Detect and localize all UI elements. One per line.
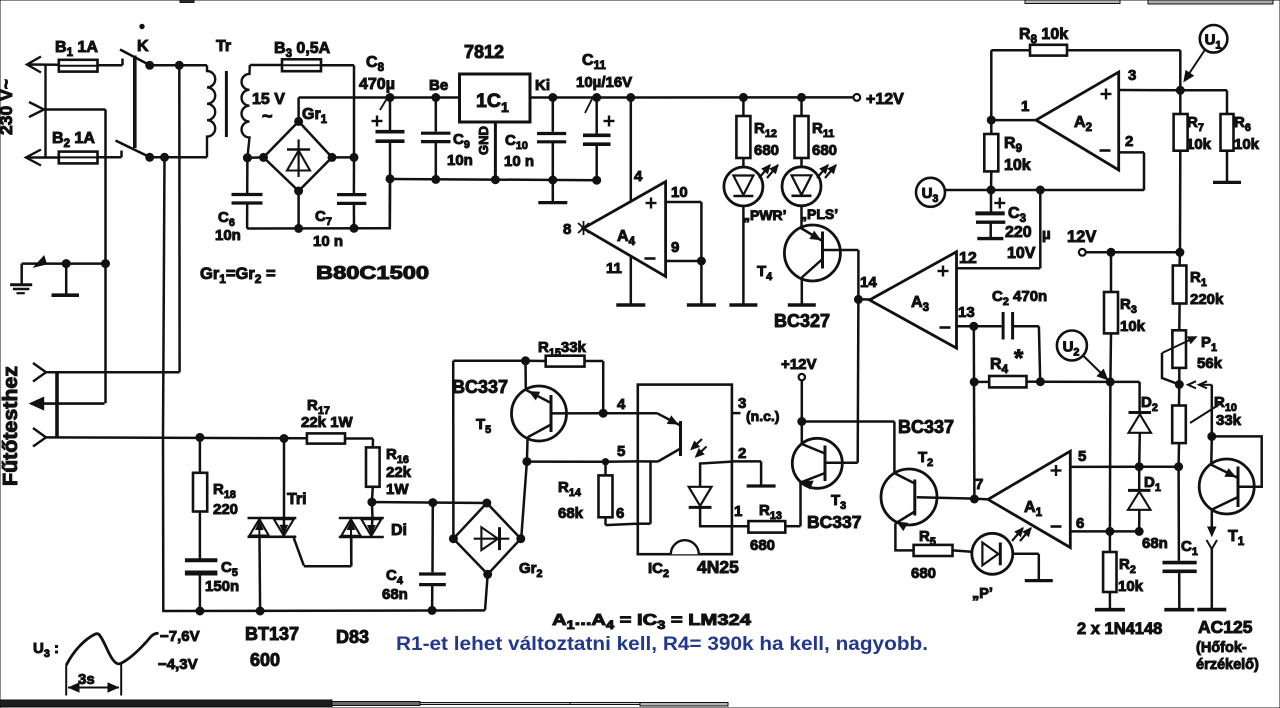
svg-text:2: 2 — [1125, 133, 1133, 150]
svg-text:Tri: Tri — [287, 491, 307, 508]
op-amp A3 — [870, 252, 957, 348]
IC2 LED — [689, 462, 732, 527]
svg-text:6: 6 — [616, 505, 624, 522]
IC2 pin5 wire — [605, 443, 638, 462]
capacitor C5 150n — [185, 559, 239, 611]
capacitor C3 220u — [975, 190, 1050, 263]
svg-text:10: 10 — [671, 184, 688, 201]
svg-text:BC337: BC337 — [452, 377, 508, 397]
node R3 top — [1107, 248, 1115, 256]
bridge rectifier Gr1 — [260, 106, 337, 195]
svg-text:−7,6V: −7,6V — [160, 628, 200, 645]
svg-text:68n: 68n — [1142, 535, 1168, 552]
switch K link bar — [135, 24, 149, 148]
svg-text:68n: 68n — [382, 586, 408, 603]
waveform dimension lines — [66, 664, 121, 696]
svg-text:680: 680 — [754, 142, 779, 159]
LED PWR ground — [729, 206, 757, 305]
terminal +12V — [853, 91, 904, 108]
heater bottom rail dots — [196, 607, 264, 615]
LED PWR — [724, 165, 787, 223]
svg-text:Fűtőtesthez: Fűtőtesthez — [0, 366, 22, 486]
svg-text:13: 13 — [958, 304, 975, 321]
wire U3 line — [945, 186, 1144, 194]
IC1 GND pin — [476, 122, 499, 184]
switch K blade bottom — [116, 141, 151, 158]
potentiometer P1 56k — [1162, 330, 1223, 388]
diode D1 — [1128, 467, 1161, 536]
heavy link terminals — [55, 372, 59, 437]
svg-text:10k: 10k — [1118, 578, 1144, 595]
A4 pin9 input — [666, 239, 706, 265]
svg-text:56k: 56k — [1197, 355, 1223, 372]
wire R3 bottom to pin6 — [1109, 382, 1112, 532]
svg-text:9: 9 — [671, 239, 679, 256]
wire left branch down — [452, 361, 455, 539]
vertical pin13 to node7 — [970, 326, 978, 499]
svg-text:(n.c.): (n.c.) — [746, 408, 779, 424]
node A3 output — [854, 274, 877, 303]
chassis ground bar — [52, 264, 80, 296]
svg-text:érzékelő): érzékelő) — [1196, 657, 1259, 673]
svg-text:12: 12 — [959, 250, 977, 267]
resistor R10 33k — [1172, 381, 1241, 467]
op-amp A1 — [988, 451, 1070, 547]
LED PLS — [782, 165, 838, 222]
svg-text:(Hőfok-: (Hőfok- — [1196, 640, 1247, 656]
svg-text:11: 11 — [606, 260, 622, 277]
svg-text:1: 1 — [1021, 98, 1029, 115]
resistor R11 — [795, 93, 838, 167]
wire pin3 node right — [1180, 89, 1227, 92]
capacitor C4 68n — [382, 503, 446, 615]
svg-text:220k: 220k — [1190, 291, 1224, 308]
svg-text:BC337: BC337 — [807, 512, 861, 532]
earth ground symbol — [10, 264, 32, 294]
IC2 phototransistor — [638, 413, 707, 461]
svg-text:D83: D83 — [336, 627, 369, 647]
wire Gr1 right vertex to B3 line — [332, 153, 358, 161]
A2 pin2 feedback — [1119, 133, 1144, 190]
resistor R3 — [1104, 252, 1146, 382]
svg-text:3s: 3s — [78, 671, 95, 688]
A2 pin1 output — [991, 98, 1036, 120]
wire Gr1 left vertex — [243, 154, 251, 162]
node R10 wiper — [1208, 385, 1216, 441]
svg-text:BC327: BC327 — [774, 311, 830, 331]
capacitor C8 470u — [359, 54, 405, 228]
capacitor C7 — [313, 157, 366, 250]
svg-text:150n: 150n — [205, 578, 239, 595]
capacitor C9 — [421, 94, 473, 184]
transistor T4 BC327 — [757, 206, 858, 331]
capacitor C10 — [504, 94, 566, 185]
wire switch-bottom down to bottom rail — [163, 157, 485, 611]
resistor R16 — [366, 439, 412, 503]
svg-text:AC125: AC125 — [1198, 617, 1253, 637]
transistor T3 BC337 — [792, 422, 861, 533]
svg-text:Gr1​=Gr2​ =: Gr1​=Gr2​ = — [200, 265, 276, 286]
svg-text:4: 4 — [634, 168, 643, 185]
resistor R13 — [732, 502, 801, 554]
svg-text:+12V: +12V — [866, 91, 904, 108]
resistor R8 feedback — [991, 26, 1180, 120]
fuse B1 — [55, 39, 98, 72]
node U2 circle — [1057, 331, 1108, 380]
A2 pin3 input — [1119, 67, 1185, 94]
A1 pin7 node — [970, 476, 988, 503]
svg-text:+12V: +12V — [781, 356, 816, 373]
svg-text:680: 680 — [812, 142, 837, 159]
label -7.6V — [160, 628, 200, 645]
optocoupler IC2 box — [638, 385, 732, 555]
capacitor C2 470n — [974, 288, 1047, 382]
resistor R18 — [193, 433, 238, 558]
LED P ground — [1013, 554, 1053, 581]
wire T5 emitter left — [453, 360, 525, 363]
svg-text:R15​33k: R15​33k — [538, 339, 587, 359]
svg-text:10k: 10k — [1186, 136, 1212, 153]
svg-text:10k: 10k — [1234, 136, 1260, 153]
wire U2 node line — [1040, 378, 1139, 386]
svg-text:*: * — [1014, 345, 1024, 372]
svg-text:B80C1500: B80C1500 — [316, 263, 429, 283]
label -4.3V — [158, 656, 198, 673]
diac Di — [339, 502, 407, 566]
T2 collector wire — [802, 422, 895, 474]
svg-text:Be: Be — [429, 77, 448, 94]
svg-text:BT137: BT137 — [245, 624, 299, 644]
A1 pin6 line — [1070, 515, 1139, 535]
svg-text:„PWRʼ: „PWRʼ — [743, 207, 787, 223]
label LM324 equation — [552, 612, 751, 632]
resistor R6 — [1213, 90, 1260, 182]
node secondary bottom — [243, 154, 264, 162]
wire B3 down to bridge — [321, 65, 354, 157]
resistor R2 — [1095, 531, 1144, 609]
svg-text:8: 8 — [563, 221, 571, 238]
IC2 pin6 wire — [606, 505, 638, 525]
+12V rail right — [530, 96, 853, 99]
wire mains vertical — [44, 65, 46, 158]
node switch bottom — [146, 153, 207, 161]
transformer primary winding — [207, 65, 215, 157]
svg-text:Di: Di — [391, 522, 407, 539]
A4 input loop ground — [687, 202, 716, 305]
node U3 circle — [916, 178, 945, 207]
svg-text:1: 1 — [734, 503, 742, 520]
svg-text:12V: 12V — [1067, 228, 1096, 246]
label 2x1N4148 — [1077, 620, 1162, 638]
svg-text:10µ/16V: 10µ/16V — [576, 74, 632, 91]
capacitor C1 68n — [1142, 467, 1198, 610]
svg-text:Tr: Tr — [216, 38, 231, 55]
svg-text:„Pʼ: „Pʼ — [972, 586, 993, 602]
resistor R12 — [736, 93, 779, 167]
label D83 — [336, 627, 369, 647]
svg-text:„PLSʼ: „PLSʼ — [800, 206, 838, 222]
svg-text:10 n: 10 n — [313, 233, 343, 250]
svg-text:14: 14 — [860, 274, 877, 291]
label 230V — [0, 79, 16, 135]
svg-text:K: K — [137, 38, 149, 55]
label BT137 600 — [245, 624, 299, 670]
transformer core — [225, 71, 228, 137]
svg-text:22k 1W: 22k 1W — [301, 414, 354, 431]
svg-text:6: 6 — [1076, 515, 1084, 532]
svg-text:2 x 1N4148: 2 x 1N4148 — [1077, 620, 1162, 638]
label 7812 — [464, 42, 504, 62]
resistor R17 — [280, 397, 373, 444]
terminal heater 2 arrow — [30, 397, 105, 410]
label Ki — [535, 77, 550, 94]
resistor R1 — [1173, 252, 1224, 330]
terminal L 230V phase arrow — [27, 57, 59, 73]
label U3 waveform — [33, 640, 59, 660]
node U1 circle — [1184, 25, 1227, 82]
wire Gr2 top line — [368, 498, 487, 507]
node switch top — [146, 61, 207, 69]
svg-text:4: 4 — [617, 396, 626, 413]
wire A3out down to T3 base — [856, 299, 859, 462]
svg-text:5: 5 — [617, 443, 625, 460]
wire Gr1 top to +12V rail — [297, 98, 300, 122]
svg-text:BC337: BC337 — [898, 417, 954, 437]
wire T5 collector to pin5 — [527, 460, 605, 463]
regulator IC1 box — [460, 74, 531, 122]
svg-text:220: 220 — [1005, 224, 1032, 241]
wire B1 to switch — [98, 59, 123, 66]
transistor T5 BC337 — [452, 361, 603, 466]
terminal 12V — [1067, 228, 1180, 256]
IC2 pin3 nc — [732, 395, 780, 424]
A4 pin8 output — [563, 221, 589, 238]
A1 pin5 line — [1070, 448, 1182, 471]
wire B2 to switch — [98, 151, 122, 158]
wire neutral box — [46, 110, 106, 404]
svg-text:680: 680 — [750, 537, 775, 554]
resistor R7 — [1174, 90, 1212, 252]
resistor R4 — [974, 345, 1044, 387]
transformer secondary winding — [242, 65, 250, 158]
wire Gr1 bottom down — [295, 191, 303, 232]
waveform curve — [66, 633, 158, 665]
capacitor C11 10u — [576, 52, 632, 184]
label Be — [429, 77, 448, 94]
+12V rail left — [299, 96, 460, 99]
svg-text:10V: 10V — [1007, 245, 1036, 262]
label 15V — [252, 91, 285, 126]
IC2 pin6 internal tie — [638, 462, 651, 524]
svg-text:470µ: 470µ — [359, 76, 395, 93]
bridge rectifier Gr2 — [449, 499, 542, 580]
svg-text:4N25: 4N25 — [697, 557, 739, 577]
A4 pin11 ground — [606, 256, 645, 305]
terminal heater 1 — [33, 363, 180, 382]
svg-text:10k: 10k — [1120, 318, 1146, 335]
svg-text:600: 600 — [250, 650, 280, 670]
A4 pin4 supply — [627, 94, 643, 202]
svg-text:230 V~: 230 V~ — [0, 79, 16, 135]
resistor R14 — [558, 459, 613, 526]
diode D2 — [1129, 382, 1158, 471]
transistor T1 AC125 — [1197, 436, 1261, 609]
svg-text:10n: 10n — [215, 227, 241, 244]
wire primary-top feed down — [178, 65, 181, 372]
wire Gr2 bottom — [485, 574, 488, 610]
terminal heater 3 — [33, 428, 307, 447]
transformer Tr label — [216, 38, 231, 55]
fuse B3 — [274, 40, 331, 71]
capacitor ground line — [390, 179, 597, 180]
svg-text:10k: 10k — [1004, 157, 1031, 174]
label Gr1=Gr2=B80C1500 — [200, 263, 429, 286]
ground stub under C10 — [538, 180, 567, 203]
A3 pin12 input — [957, 190, 1041, 268]
IC2 pin4 wire — [603, 396, 638, 413]
A4 pin10 input — [666, 184, 702, 202]
svg-text:7812: 7812 — [464, 42, 504, 62]
triac Tri BT137 — [248, 439, 352, 612]
IC2 pin2 ground — [732, 445, 776, 486]
svg-text:680: 680 — [911, 565, 936, 582]
terminal 230V neutral arrow — [29, 102, 44, 117]
LED P — [972, 528, 1031, 602]
svg-text:10 n: 10 n — [504, 153, 534, 170]
resistor R15 — [522, 339, 608, 417]
capacitor C6 — [215, 158, 263, 244]
svg-text:−4,3V: −4,3V — [158, 656, 198, 673]
op-amp A2 — [1036, 72, 1119, 170]
svg-text:Ki: Ki — [535, 77, 550, 94]
svg-text:1W: 1W — [386, 481, 409, 498]
terminal B2 arrow — [26, 150, 59, 166]
svg-text:C2​ 470n: C2​ 470n — [992, 288, 1047, 308]
label IC2 4N25 — [648, 557, 739, 580]
svg-text:2: 2 — [738, 445, 746, 462]
svg-text:R1-et lehet változtatni kell,: R1-et lehet változtatni kell, R4= 390k h… — [396, 633, 928, 655]
svg-text:~: ~ — [262, 106, 273, 126]
svg-text:220: 220 — [213, 501, 238, 518]
switch K blade top — [120, 50, 151, 66]
svg-text:5: 5 — [1078, 448, 1086, 465]
svg-text:68k: 68k — [558, 505, 584, 522]
ground rail under bridge — [247, 179, 390, 229]
A3 pin13 input — [957, 304, 978, 330]
svg-text:GND: GND — [476, 126, 491, 155]
transistor T2 BC337 — [881, 417, 974, 550]
ground junction — [22, 256, 110, 268]
resistor R5 — [911, 528, 972, 582]
svg-text:22k: 22k — [386, 464, 412, 481]
wire T5 collector down — [521, 462, 527, 539]
svg-text:3: 3 — [1128, 67, 1136, 84]
node R1 top — [1176, 248, 1184, 256]
resistor R9 — [984, 116, 1030, 190]
svg-text:10n: 10n — [447, 152, 473, 169]
handwritten blue note — [396, 633, 928, 655]
svg-text:7: 7 — [975, 476, 983, 493]
op-amp A4 — [583, 182, 665, 277]
wire secondary to B3 — [250, 64, 282, 67]
terminal +12V T3 — [781, 356, 816, 426]
label AC125 — [1196, 617, 1259, 673]
svg-text:µ: µ — [1042, 226, 1051, 243]
fuse B2 — [52, 130, 98, 163]
svg-text:33k: 33k — [1216, 412, 1242, 429]
label Futotesthez — [0, 366, 22, 486]
